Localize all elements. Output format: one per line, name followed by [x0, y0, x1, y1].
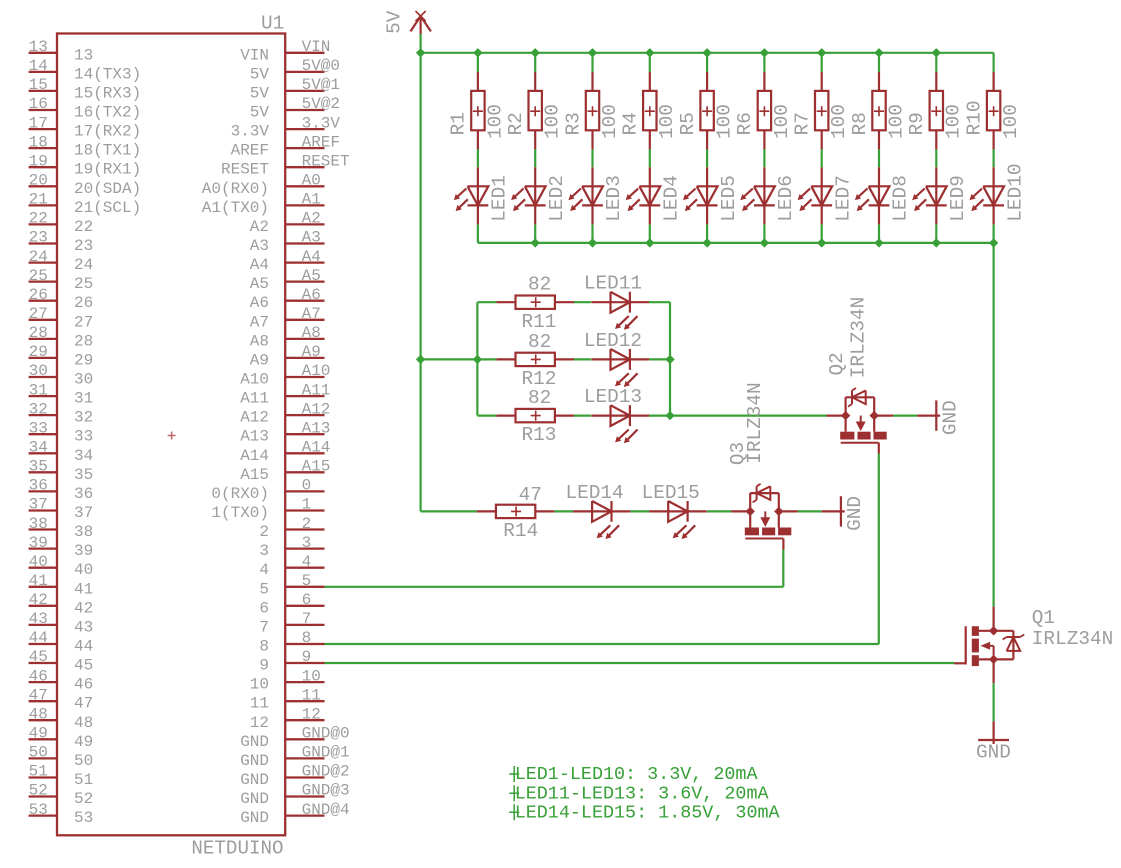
- U1 pin 31 (left): [29, 381, 94, 407]
- resistor R9 100: [906, 72, 965, 149]
- svg-text:A8: A8: [250, 332, 269, 350]
- svg-text:A12: A12: [302, 400, 331, 418]
- svg-text:R5: R5: [677, 112, 699, 135]
- svg-text:IRLZ34N: IRLZ34N: [744, 382, 766, 463]
- svg-text:36: 36: [74, 485, 93, 503]
- svg-text:5V@1: 5V@1: [302, 76, 340, 94]
- supply +5V symbol: [411, 11, 431, 34]
- svg-text:19: 19: [29, 152, 48, 170]
- svg-text:LED11-LED13: 3.6V, 20mA: LED11-LED13: 3.6V, 20mA: [515, 783, 770, 804]
- U1 pin 26 (left): [29, 286, 94, 312]
- U1 pin 22 (left): [29, 210, 94, 236]
- svg-text:45: 45: [29, 648, 48, 666]
- svg-text:37: 37: [29, 496, 48, 514]
- wire R8 to LED8: [878, 149, 880, 167]
- junction left vertical R12 row: [473, 355, 482, 364]
- svg-text:53: 53: [29, 801, 48, 819]
- wire Q2 gate to U1 pin 8: [325, 454, 879, 644]
- U1 pin GND@0 (right): [240, 725, 349, 751]
- U1 pin 24 (left): [29, 248, 94, 274]
- U1 pin 1 (right): [211, 496, 324, 522]
- svg-text:A10: A10: [240, 371, 269, 389]
- svg-text:23: 23: [74, 237, 93, 255]
- svg-text:5V: 5V: [250, 104, 270, 122]
- svg-text:LED7: LED7: [832, 175, 854, 222]
- junction cathode rail / LED6: [760, 238, 769, 247]
- wire LED8 to cathode rail: [878, 224, 880, 243]
- Q1 labels: [1032, 607, 1113, 650]
- U1 pin 5V@0 (right): [250, 57, 340, 83]
- svg-text:38: 38: [74, 523, 93, 541]
- U1 pin 13 (left): [29, 38, 94, 64]
- svg-text:11: 11: [302, 686, 321, 704]
- svg-text:R6: R6: [734, 112, 756, 135]
- svg-text:41: 41: [74, 580, 93, 598]
- svg-text:8: 8: [259, 638, 269, 656]
- svg-text:IRLZ34N: IRLZ34N: [1032, 628, 1113, 650]
- junction rail / R1: [473, 48, 482, 57]
- svg-text:NETDUINO: NETDUINO: [191, 838, 283, 860]
- U1 pin A15 (right): [240, 458, 330, 484]
- Q3 labels: [727, 382, 766, 465]
- junction cathode rail / LED4: [645, 238, 654, 247]
- resistor R13 82: [477, 387, 574, 446]
- svg-text:47: 47: [519, 484, 542, 506]
- resistor R3 100: [562, 72, 621, 149]
- U1 pin 15 (left): [29, 76, 142, 102]
- svg-text:A3: A3: [250, 237, 269, 255]
- svg-text:AREF: AREF: [231, 142, 269, 160]
- svg-text:A0: A0: [302, 172, 321, 190]
- wire trunk corner to R14: [421, 510, 477, 512]
- note text LED1-LED10: [509, 764, 758, 785]
- svg-text:47: 47: [74, 695, 93, 713]
- svg-text:A7: A7: [302, 305, 321, 323]
- wire LED13 row to Q2 drain: [670, 415, 827, 417]
- svg-text:A14: A14: [240, 447, 269, 465]
- svg-text:GND@1: GND@1: [302, 744, 350, 762]
- U1 pin A11 (right): [240, 381, 330, 407]
- svg-text:U1: U1: [261, 13, 284, 35]
- LED LED4: [626, 167, 683, 224]
- U1 pin GND@2 (right): [240, 763, 349, 789]
- transistor Q2 IRLZ34N: [827, 388, 894, 454]
- svg-text:32: 32: [29, 400, 48, 418]
- svg-text:100: 100: [1000, 104, 1022, 139]
- svg-text:A7: A7: [250, 313, 269, 331]
- svg-text:43: 43: [29, 610, 48, 628]
- LED LED10: [970, 164, 1027, 225]
- U1 pin 41 (left): [29, 572, 94, 598]
- svg-text:2: 2: [259, 523, 269, 541]
- svg-text:R9: R9: [906, 112, 928, 135]
- svg-text:AREF: AREF: [302, 133, 340, 151]
- svg-text:A9: A9: [302, 343, 321, 361]
- svg-text:GND: GND: [240, 809, 269, 827]
- U1 pin 52 (left): [29, 782, 94, 808]
- U1 pin A1 (right): [202, 191, 325, 217]
- U1 pin 8 (right): [259, 629, 324, 655]
- svg-text:A9: A9: [250, 351, 269, 369]
- transistor Q1 IRLZ34N: [954, 607, 1024, 684]
- U1 pin 39 (left): [29, 534, 94, 560]
- U1 pin 38 (left): [29, 515, 94, 541]
- LED LED8: [855, 167, 912, 224]
- junction cathode rail / LED10: [989, 238, 998, 247]
- svg-text:A0(RX0): A0(RX0): [202, 180, 269, 198]
- U1 pin 7 (right): [259, 610, 324, 636]
- LED LED2: [511, 167, 568, 224]
- LED LED11: [584, 273, 649, 330]
- svg-text:R1: R1: [448, 112, 470, 135]
- wire R9 to LED9: [935, 149, 937, 167]
- U1 pin 46 (left): [29, 667, 94, 693]
- svg-text:GND: GND: [976, 742, 1011, 764]
- U1 pin 12 (right): [250, 706, 325, 732]
- svg-text:31: 31: [29, 381, 48, 399]
- svg-text:10: 10: [250, 676, 269, 694]
- U1 pin 28 (left): [29, 324, 94, 350]
- wire LED7 to cathode rail: [821, 224, 823, 243]
- U1 pin 43 (left): [29, 610, 94, 636]
- svg-text:12: 12: [302, 706, 321, 724]
- svg-text:17: 17: [29, 114, 48, 132]
- junction right vertical LED12 row: [665, 355, 674, 364]
- svg-text:VIN: VIN: [302, 38, 331, 56]
- svg-text:A4: A4: [302, 248, 321, 266]
- svg-text:4: 4: [302, 553, 312, 571]
- junction cathode rail / LED8: [874, 238, 883, 247]
- wire rail to R5: [706, 53, 708, 72]
- wire 5V top rail: [421, 52, 994, 54]
- wire R14 to LED14: [554, 510, 573, 512]
- U1 pin A7 (right): [250, 305, 325, 331]
- svg-text:A3: A3: [302, 229, 321, 247]
- wire LED5 to cathode rail: [706, 224, 708, 243]
- svg-text:5V: 5V: [250, 65, 270, 83]
- svg-text:R7: R7: [792, 112, 814, 135]
- wire LED14 to LED15: [631, 510, 650, 512]
- svg-text:100: 100: [828, 104, 850, 139]
- U1 pin A10 (right): [240, 362, 330, 388]
- svg-text:12: 12: [250, 714, 269, 732]
- svg-text:R4: R4: [620, 112, 642, 135]
- Q2 labels: [826, 297, 870, 378]
- svg-text:IRLZ34N: IRLZ34N: [847, 297, 869, 378]
- svg-text:VIN: VIN: [240, 46, 269, 64]
- svg-text:1(TX0): 1(TX0): [211, 504, 269, 522]
- svg-text:24: 24: [29, 248, 48, 266]
- U1 pin 9 (right): [259, 648, 324, 674]
- svg-text:4: 4: [259, 561, 269, 579]
- svg-text:41: 41: [29, 572, 48, 590]
- note text LED14-LED15: [509, 802, 780, 823]
- svg-text:44: 44: [29, 629, 48, 647]
- U1 pin A4 (right): [250, 248, 325, 274]
- svg-text:38: 38: [29, 515, 48, 533]
- wire LED cathode rail: [478, 242, 994, 244]
- svg-text:50: 50: [29, 744, 48, 762]
- svg-text:3.3V: 3.3V: [302, 114, 341, 132]
- svg-text:R8: R8: [849, 112, 871, 135]
- svg-text:5V@2: 5V@2: [302, 95, 340, 113]
- U1 pin 30 (left): [29, 362, 94, 388]
- IC U1 NETDUINO outline: [57, 34, 285, 836]
- wire 5V trunk vertical: [420, 53, 422, 512]
- svg-text:49: 49: [29, 725, 48, 743]
- svg-text:46: 46: [29, 667, 48, 685]
- ground GND at Q3: [822, 496, 866, 531]
- svg-text:82: 82: [528, 387, 551, 409]
- svg-text:5V: 5V: [250, 84, 270, 102]
- svg-text:13: 13: [29, 38, 48, 56]
- U1 pin 45 (left): [29, 648, 94, 674]
- svg-text:0(RX0): 0(RX0): [211, 485, 269, 503]
- svg-text:31: 31: [74, 390, 93, 408]
- junction rail / R9: [932, 48, 941, 57]
- wire rail to R7: [821, 53, 823, 72]
- U1 origin cross: [168, 432, 176, 440]
- U1 pin 5 (right): [259, 572, 324, 598]
- wire rail to R4: [649, 53, 651, 72]
- U1 pin 4 (right): [259, 553, 324, 579]
- U1 pin 25 (left): [29, 267, 94, 293]
- svg-text:LED2: LED2: [546, 175, 568, 222]
- svg-text:42: 42: [74, 599, 93, 617]
- svg-text:25: 25: [74, 275, 93, 293]
- svg-text:LED1-LED10: 3.3V, 20mA: LED1-LED10: 3.3V, 20mA: [515, 764, 759, 785]
- wire LED10 to cathode rail: [992, 224, 994, 243]
- junction right vertical LED13 row: [665, 411, 674, 420]
- svg-text:19(RX1): 19(RX1): [74, 161, 141, 179]
- LED LED3: [568, 167, 625, 224]
- svg-text:6: 6: [302, 591, 312, 609]
- svg-text:18: 18: [29, 133, 48, 151]
- U1 pin 51 (left): [29, 763, 94, 789]
- wire LED11 to right vertical: [649, 301, 670, 303]
- U1 pin 5V@1 (right): [250, 76, 340, 102]
- U1 pin 21 (left): [29, 191, 142, 217]
- svg-text:32: 32: [74, 409, 93, 427]
- U1 pin 2 (right): [259, 515, 324, 541]
- svg-text:21(SCL): 21(SCL): [74, 199, 141, 217]
- U1 pin 14 (left): [29, 57, 142, 83]
- svg-text:100: 100: [599, 104, 621, 139]
- svg-text:RESET: RESET: [221, 161, 269, 179]
- wire R13 to LED13: [574, 415, 591, 417]
- wire R6 to LED6: [763, 149, 765, 167]
- svg-text:33: 33: [29, 419, 48, 437]
- svg-text:47: 47: [29, 686, 48, 704]
- resistor R12 82: [477, 331, 574, 390]
- svg-text:GND@4: GND@4: [302, 801, 350, 819]
- wire LED9 to cathode rail: [935, 224, 937, 243]
- U1 pin 23 (left): [29, 229, 94, 255]
- svg-text:100: 100: [656, 104, 678, 139]
- svg-text:20(SDA): 20(SDA): [74, 180, 141, 198]
- resistor R14 47: [477, 484, 555, 542]
- U1 pin A0 (right): [202, 172, 325, 198]
- svg-text:A14: A14: [302, 439, 331, 457]
- svg-text:52: 52: [29, 782, 48, 800]
- wire R4 to LED4: [649, 149, 651, 167]
- svg-text:14(TX3): 14(TX3): [74, 65, 141, 83]
- svg-text:A5: A5: [250, 275, 269, 293]
- U1 pin 37 (left): [29, 496, 94, 522]
- wire R12 to LED12: [574, 358, 591, 360]
- wire rail to R3: [591, 53, 593, 72]
- svg-text:3.3V: 3.3V: [231, 123, 270, 141]
- svg-text:44: 44: [74, 638, 93, 656]
- svg-text:100: 100: [943, 104, 965, 139]
- U1 pin 44 (left): [29, 629, 94, 655]
- resistor R7 100: [792, 72, 851, 149]
- wire LED block right vertical: [669, 302, 671, 415]
- svg-text:16(TX2): 16(TX2): [74, 104, 141, 122]
- transistor Q3 IRLZ34N: [731, 484, 798, 550]
- U1 pin 18 (left): [29, 133, 142, 159]
- wire LED1 to cathode rail: [477, 224, 479, 243]
- svg-text:15: 15: [29, 76, 48, 94]
- U1 pin 32 (left): [29, 400, 94, 426]
- svg-text:Q1: Q1: [1032, 607, 1055, 629]
- U1 pin A13 (right): [240, 419, 330, 445]
- U1 pin A14 (right): [240, 439, 330, 465]
- wire LED13 to right vertical: [649, 415, 670, 417]
- U1 pin A8 (right): [250, 324, 325, 350]
- resistor R10 100: [963, 72, 1022, 149]
- svg-text:A1: A1: [302, 191, 321, 209]
- svg-text:33: 33: [74, 428, 93, 446]
- junction cathode rail / LED2: [531, 238, 540, 247]
- wire cathode rail to Q1 drain: [992, 243, 994, 607]
- svg-text:R14: R14: [503, 520, 538, 542]
- junction rail / R5: [702, 48, 711, 57]
- U1 pin 6 (right): [259, 591, 324, 617]
- svg-text:LED3: LED3: [603, 175, 625, 222]
- svg-text:5: 5: [259, 580, 269, 598]
- svg-text:GND: GND: [240, 752, 269, 770]
- svg-text:0: 0: [302, 477, 312, 495]
- svg-text:11: 11: [250, 695, 269, 713]
- wire LED15 to Q3 drain: [707, 510, 731, 512]
- svg-text:LED14-LED15: 1.85V, 30mA: LED14-LED15: 1.85V, 30mA: [515, 802, 781, 823]
- svg-text:100: 100: [484, 104, 506, 139]
- LED LED7: [798, 167, 855, 224]
- junction rail / R4: [645, 48, 654, 57]
- svg-text:A13: A13: [240, 428, 269, 446]
- U1 pin 47 (left): [29, 686, 94, 712]
- svg-text:1: 1: [302, 496, 312, 514]
- LED LED13: [584, 386, 649, 443]
- svg-text:30: 30: [74, 371, 93, 389]
- wire rail to R10: [992, 53, 994, 72]
- junction 5V trunk/rail: [416, 48, 425, 57]
- svg-text:10: 10: [302, 667, 321, 685]
- wire Q1 gate to U1 pin 9: [325, 662, 955, 664]
- U1 pin GND@1 (right): [240, 744, 349, 770]
- resistor R5 100: [677, 72, 736, 149]
- U1 pin 10 (right): [250, 667, 325, 693]
- wire LED12 to right vertical: [649, 358, 670, 360]
- svg-text:LED6: LED6: [775, 175, 797, 222]
- svg-text:A11: A11: [240, 390, 269, 408]
- U1 pin 11 (right): [250, 686, 325, 712]
- svg-text:35: 35: [29, 458, 48, 476]
- wire 5V symbol to rail: [420, 34, 422, 53]
- svg-text:36: 36: [29, 477, 48, 495]
- svg-text:A15: A15: [302, 458, 331, 476]
- svg-text:35: 35: [74, 466, 93, 484]
- svg-text:17(RX2): 17(RX2): [74, 123, 141, 141]
- svg-text:Q2: Q2: [826, 352, 848, 375]
- wire rail to R6: [763, 53, 765, 72]
- svg-text:30: 30: [29, 362, 48, 380]
- U1 name label: [261, 13, 284, 35]
- supply 5V label: [384, 10, 406, 34]
- svg-text:3: 3: [259, 542, 269, 560]
- svg-text:52: 52: [74, 790, 93, 808]
- svg-text:R3: R3: [562, 112, 584, 135]
- svg-text:39: 39: [74, 542, 93, 560]
- U1 pin 16 (left): [29, 95, 142, 121]
- wire R1 to LED1: [477, 149, 479, 167]
- svg-text:GND@0: GND@0: [302, 725, 350, 743]
- wire R11 to LED11: [574, 301, 591, 303]
- junction cathode rail / LED3: [588, 238, 597, 247]
- U1 pin A2 (right): [250, 210, 325, 236]
- U1 pin 49 (left): [29, 725, 94, 751]
- svg-text:23: 23: [29, 229, 48, 247]
- svg-text:A6: A6: [302, 286, 321, 304]
- svg-text:LED13: LED13: [584, 386, 642, 408]
- U1 pin 17 (left): [29, 114, 142, 140]
- svg-text:39: 39: [29, 534, 48, 552]
- svg-text:5: 5: [302, 572, 312, 590]
- U1 pin 5V@2 (right): [250, 95, 340, 121]
- resistor R6 100: [734, 72, 793, 149]
- wire R2 to LED2: [534, 149, 536, 167]
- U1 pin 53 (left): [29, 801, 94, 827]
- U1 value label NETDUINO: [191, 838, 283, 860]
- junction rail / R6: [760, 48, 769, 57]
- svg-text:48: 48: [74, 714, 93, 732]
- wire rail to R8: [878, 53, 880, 72]
- svg-text:8: 8: [302, 629, 312, 647]
- svg-text:24: 24: [74, 256, 93, 274]
- resistor R11 82: [477, 274, 574, 333]
- svg-text:26: 26: [29, 286, 48, 304]
- svg-text:22: 22: [74, 218, 93, 236]
- svg-text:A10: A10: [302, 362, 331, 380]
- svg-text:7: 7: [259, 618, 269, 636]
- svg-text:R2: R2: [505, 112, 527, 135]
- svg-text:A1(TX0): A1(TX0): [202, 199, 269, 217]
- U1 pin AREF (right): [231, 133, 340, 159]
- svg-text:37: 37: [74, 504, 93, 522]
- svg-text:40: 40: [29, 553, 48, 571]
- svg-text:34: 34: [29, 439, 48, 457]
- svg-text:51: 51: [29, 763, 48, 781]
- wire R5 to LED5: [706, 149, 708, 167]
- svg-text:28: 28: [74, 332, 93, 350]
- svg-text:18(TX1): 18(TX1): [74, 142, 141, 160]
- svg-text:29: 29: [29, 343, 48, 361]
- svg-text:A13: A13: [302, 419, 331, 437]
- wire LED4 to cathode rail: [649, 224, 651, 243]
- U1 pin 3 (right): [259, 534, 324, 560]
- wire Q2 source to ground: [893, 415, 917, 417]
